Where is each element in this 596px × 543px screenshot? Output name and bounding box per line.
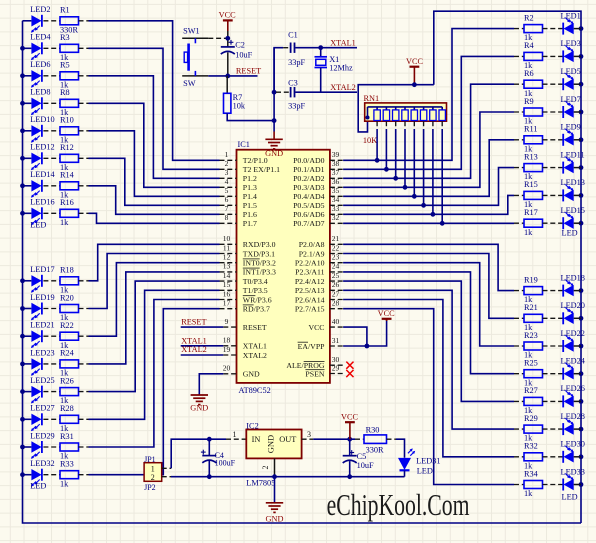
svg-text:LED10: LED10 xyxy=(30,115,54,124)
svg-text:T2 EX/P1.1: T2 EX/P1.1 xyxy=(243,165,280,174)
wire capacitor common xyxy=(274,48,283,121)
svg-text:R30: R30 xyxy=(366,426,380,435)
svg-text:29: 29 xyxy=(332,363,340,372)
wire R10 to IC1 pin 5 xyxy=(79,130,89,132)
wire LED13 anode xyxy=(574,194,581,196)
LED LED32 xyxy=(31,469,41,480)
capacitor C1 xyxy=(283,47,290,49)
svg-text:18: 18 xyxy=(223,336,231,345)
svg-text:32: 32 xyxy=(332,213,340,222)
svg-text:33pF: 33pF xyxy=(288,58,305,67)
svg-text:RESET: RESET xyxy=(243,323,267,332)
svg-text:LED31: LED31 xyxy=(416,456,440,465)
wire LED21 anode xyxy=(23,335,32,337)
pin 24 P2.3/A11 xyxy=(330,271,343,273)
resistor R25 xyxy=(514,373,524,375)
LED LED2 xyxy=(31,15,41,26)
wire IC1 P2.1 to R21 xyxy=(343,254,514,319)
svg-text:3: 3 xyxy=(307,430,311,439)
pin 33 P0.6/AD6 xyxy=(330,213,343,215)
wire LED25 cathode to R26 xyxy=(43,391,60,393)
pin 21 P2.0/A8 xyxy=(330,243,343,245)
junction xyxy=(365,344,370,349)
svg-text:2: 2 xyxy=(261,466,270,470)
svg-text:P0.1/AD1: P0.1/AD1 xyxy=(293,165,325,174)
svg-text:9: 9 xyxy=(225,317,229,326)
svg-text:LED20: LED20 xyxy=(561,301,585,310)
wire RN1 pin 8 to P0.6 xyxy=(432,121,434,129)
LED LED31 xyxy=(398,458,411,470)
svg-text:3: 3 xyxy=(225,168,229,177)
svg-text:24: 24 xyxy=(332,262,340,271)
svg-text:R24: R24 xyxy=(60,349,75,358)
junction xyxy=(579,482,584,487)
wire LED23 anode xyxy=(23,363,32,365)
junction xyxy=(393,176,398,181)
svg-text:LED28: LED28 xyxy=(561,412,585,421)
capacitor C5 xyxy=(349,439,351,456)
wire IC1 P0.3 to R9 xyxy=(343,112,514,187)
pin 10 RXD/P3.0 xyxy=(220,243,237,245)
svg-text:LED2: LED2 xyxy=(30,5,50,14)
svg-text:RESET: RESET xyxy=(181,317,206,326)
wire RN1 pin 5 to P0.3 xyxy=(404,121,406,129)
power VCC output xyxy=(345,421,355,423)
wire LED5 anode xyxy=(574,83,581,85)
svg-text:1: 1 xyxy=(225,150,229,159)
pin 38 P0.1/AD1 xyxy=(330,168,343,170)
svg-text:4: 4 xyxy=(225,177,229,186)
svg-text:R2: R2 xyxy=(524,13,534,22)
svg-text:38: 38 xyxy=(332,159,340,168)
svg-text:12: 12 xyxy=(223,253,231,262)
svg-text:14: 14 xyxy=(223,271,231,280)
wire LED15 anode xyxy=(574,222,581,224)
wire pin 31 EA to VCC xyxy=(343,319,387,346)
resistor R3 xyxy=(60,44,79,52)
wire pin 40 VCC to EA xyxy=(343,327,367,346)
svg-text:P0.0/AD0: P0.0/AD0 xyxy=(293,156,325,165)
svg-text:RD/P3.7: RD/P3.7 xyxy=(243,305,270,314)
wire IC1 P2.3 to R25 xyxy=(343,272,514,374)
junction xyxy=(579,54,584,59)
svg-text:INT1/P3.3: INT1/P3.3 xyxy=(243,268,276,277)
svg-text:LED24: LED24 xyxy=(561,357,586,366)
svg-text:P1.6: P1.6 xyxy=(243,210,257,219)
svg-text:17: 17 xyxy=(223,299,231,308)
wire IC1 P0.2 to R6 xyxy=(343,84,514,178)
svg-text:LED15: LED15 xyxy=(561,206,585,215)
wire LED18 anode xyxy=(574,290,581,292)
svg-text:LED: LED xyxy=(417,466,433,475)
pin 30 ALE/PROG xyxy=(330,364,343,366)
svg-text:R11: R11 xyxy=(524,125,538,134)
svg-text:AT89C52: AT89C52 xyxy=(239,386,271,395)
svg-text:23: 23 xyxy=(332,253,340,262)
svg-text:XTAL2: XTAL2 xyxy=(181,345,207,354)
resistor R1 xyxy=(60,17,79,25)
LED LED8 xyxy=(31,98,41,109)
svg-text:LED23: LED23 xyxy=(30,348,54,357)
junction xyxy=(579,82,584,87)
no-connect X xyxy=(346,362,353,369)
svg-text:LED9: LED9 xyxy=(561,123,581,132)
svg-text:LED29: LED29 xyxy=(30,431,54,440)
svg-text:R10: R10 xyxy=(60,116,74,125)
svg-text:XTAL1: XTAL1 xyxy=(181,336,207,345)
wire R1 to IC1 pin 1 xyxy=(79,20,89,22)
wire LED14 anode xyxy=(23,185,32,187)
wire LED9 anode xyxy=(574,139,581,141)
svg-text:33: 33 xyxy=(332,204,340,213)
svg-text:LED13: LED13 xyxy=(561,178,585,187)
capacitor C4 xyxy=(207,437,212,442)
resistor R22 xyxy=(60,332,79,340)
svg-text:12Mhz: 12Mhz xyxy=(329,63,353,72)
svg-text:C1: C1 xyxy=(288,31,298,40)
svg-text:LED5: LED5 xyxy=(561,67,581,76)
svg-text:P1.2: P1.2 xyxy=(243,174,257,183)
svg-text:LED19: LED19 xyxy=(30,293,54,302)
junction xyxy=(20,73,25,78)
svg-text:LED: LED xyxy=(562,493,578,502)
svg-text:R4: R4 xyxy=(524,41,535,50)
junction xyxy=(579,26,584,31)
junction xyxy=(20,211,25,216)
wire IC1 P0.1 to R4 xyxy=(343,56,514,169)
svg-text:SW1: SW1 xyxy=(183,27,200,36)
pin 3 P1.2 xyxy=(220,177,237,179)
capacitor C2 xyxy=(227,31,229,47)
wire LED26 anode xyxy=(574,400,581,402)
junction xyxy=(579,427,584,432)
LED LED1 xyxy=(564,23,574,34)
svg-text:LED8: LED8 xyxy=(30,88,50,97)
svg-text:R19: R19 xyxy=(524,275,538,284)
wire R32 to LED30 xyxy=(543,456,564,458)
wire right anode bus xyxy=(434,11,581,523)
wire LED3 anode xyxy=(574,55,581,57)
svg-text:11: 11 xyxy=(223,243,230,252)
svg-text:R8: R8 xyxy=(60,88,70,97)
svg-text:R27: R27 xyxy=(524,386,538,395)
resistor R20 xyxy=(60,305,79,313)
wire LED1 anode xyxy=(574,28,581,30)
junction xyxy=(20,128,25,133)
svg-text:GND: GND xyxy=(190,404,208,413)
pin 5 P1.4 xyxy=(220,195,237,197)
wire LED19 cathode to R20 xyxy=(43,308,60,310)
RN1 element 5 xyxy=(404,107,406,110)
pin 31 EA/VPP xyxy=(330,345,343,347)
resistor R30 xyxy=(355,438,364,440)
svg-text:P0.6/AD6: P0.6/AD6 xyxy=(293,210,325,219)
svg-text:XTAL1: XTAL1 xyxy=(330,38,356,47)
wire LED27 anode xyxy=(23,418,32,420)
svg-text:36: 36 xyxy=(332,177,340,186)
wire R6 to LED5 xyxy=(543,83,564,85)
pin 17 RD/P3.7 xyxy=(220,308,237,310)
svg-text:LED16: LED16 xyxy=(30,198,54,207)
no-connect X xyxy=(346,370,353,377)
svg-text:SW: SW xyxy=(183,79,196,88)
wire R4 to LED3 xyxy=(543,55,564,57)
wire RESET to pin 9 xyxy=(181,326,224,328)
svg-text:P2.1/A9: P2.1/A9 xyxy=(299,249,325,258)
junction xyxy=(579,165,584,170)
svg-text:LED: LED xyxy=(30,221,46,230)
wire LED19 anode xyxy=(23,308,32,310)
svg-text:R18: R18 xyxy=(60,266,74,275)
wire RN1 pin 3 to P0.1 xyxy=(385,121,387,129)
svg-text:100uF: 100uF xyxy=(215,459,236,468)
wire R13 to LED11 xyxy=(543,167,564,169)
svg-text:R25: R25 xyxy=(524,359,538,368)
wire IC1 P2.6 to R32 xyxy=(343,300,514,457)
wire R2 to LED1 xyxy=(543,28,564,30)
pin 18 XTAL1 xyxy=(223,345,236,347)
svg-text:R1: R1 xyxy=(60,6,70,15)
svg-text:P2.6/A14: P2.6/A14 xyxy=(295,295,325,304)
wire IC1 P2.4 to R27 xyxy=(343,281,514,401)
wire R17 to LED15 xyxy=(543,222,564,224)
pin 4 P1.3 xyxy=(220,186,237,188)
svg-text:1k: 1k xyxy=(524,489,533,498)
junction xyxy=(412,82,417,87)
svg-text:T2/P1.0: T2/P1.0 xyxy=(243,156,268,165)
wire LED2 anode xyxy=(23,20,32,22)
wire R24 to IC1 pin 13 xyxy=(79,363,89,365)
wire R18 to IC1 pin 10 xyxy=(79,280,89,282)
junction xyxy=(412,194,417,199)
junction xyxy=(384,167,389,172)
svg-text:IN: IN xyxy=(252,435,261,444)
svg-text:P1.5: P1.5 xyxy=(243,201,257,210)
svg-text:330R: 330R xyxy=(366,445,384,454)
svg-text:6: 6 xyxy=(225,195,229,204)
wire LED16 cathode to R16 xyxy=(43,212,60,214)
svg-text:P2.2/A10: P2.2/A10 xyxy=(295,259,325,268)
wire C3 common xyxy=(273,48,275,92)
svg-text:LED3: LED3 xyxy=(561,39,581,48)
svg-text:R6: R6 xyxy=(524,69,534,78)
wire R21 to LED20 xyxy=(543,317,564,319)
wire XTAL1 net xyxy=(295,47,357,49)
wire R9 to LED7 xyxy=(543,111,564,113)
junction xyxy=(579,454,584,459)
wire IC1 P0.4 to R11 xyxy=(343,140,514,197)
svg-text:VCC: VCC xyxy=(341,412,359,421)
svg-text:PSEN: PSEN xyxy=(305,369,324,378)
wire R16 to IC1 pin 8 xyxy=(79,212,89,214)
svg-text:P1.4: P1.4 xyxy=(243,192,257,201)
wire LED14 cathode to R14 xyxy=(43,185,60,187)
svg-text:LED4: LED4 xyxy=(30,33,51,42)
junction xyxy=(20,306,25,311)
LED LED28 xyxy=(564,423,574,434)
wire LED6 cathode to R5 xyxy=(43,75,60,77)
junction xyxy=(579,221,584,226)
resistor R4 xyxy=(514,55,524,57)
RN1 element 2 xyxy=(376,107,378,110)
svg-text:P0.4/AD4: P0.4/AD4 xyxy=(293,192,325,201)
wire C2 to reset node xyxy=(227,52,229,76)
wire R11 to LED9 xyxy=(543,139,564,141)
pin 23 P2.2/A10 xyxy=(330,262,343,264)
svg-text:OUT: OUT xyxy=(279,435,296,444)
wire LED2 cathode to R1 xyxy=(43,20,60,22)
RN1 element 6 xyxy=(413,107,415,110)
pin 7 P1.6 xyxy=(220,213,237,215)
svg-text:22: 22 xyxy=(332,243,340,252)
svg-text:LED7: LED7 xyxy=(561,95,581,104)
op-amp U1 IC1 AT89C52 body xyxy=(237,150,330,383)
junction xyxy=(579,110,584,115)
svg-text:P0.3/AD3: P0.3/AD3 xyxy=(293,183,325,192)
pin 20 GND xyxy=(223,373,236,375)
svg-text:21: 21 xyxy=(332,234,340,243)
svg-text:LED1: LED1 xyxy=(561,11,581,20)
wire IC1 P2.7 to R34 xyxy=(343,309,514,485)
junction xyxy=(20,472,25,477)
junction xyxy=(579,288,584,293)
svg-text:VCC: VCC xyxy=(406,57,424,66)
svg-text:20: 20 xyxy=(223,364,231,373)
resistor R12 xyxy=(60,154,79,162)
wire R20 to IC1 pin 11 xyxy=(79,308,89,310)
resistor R5 xyxy=(60,72,79,80)
wire RN1 pin 7 to P0.5 xyxy=(423,121,425,129)
wire IC1 P2.2 to R23 xyxy=(343,263,514,346)
LED LED15 xyxy=(564,218,574,229)
junction xyxy=(579,316,584,321)
pin 2 T2 EX/P1.1 xyxy=(220,168,237,170)
junction xyxy=(347,437,352,442)
wire LED12 cathode to R12 xyxy=(43,157,60,159)
svg-text:XTAL2: XTAL2 xyxy=(243,351,267,360)
wire LED33 anode xyxy=(574,484,581,486)
svg-text:P2.0/A8: P2.0/A8 xyxy=(299,240,325,249)
svg-text:R13: R13 xyxy=(524,152,538,161)
LED LED14 xyxy=(31,180,41,191)
svg-text:1: 1 xyxy=(233,430,237,439)
wire RN1 pin 9 to P0.7 xyxy=(441,121,443,129)
wire LED25 anode xyxy=(23,391,32,393)
svg-text:TXD/P3.1: TXD/P3.1 xyxy=(243,249,275,258)
wire R28 to IC1 pin 15 xyxy=(79,418,89,420)
svg-text:R9: R9 xyxy=(524,97,534,106)
svg-text:34: 34 xyxy=(332,195,340,204)
wire R34 to LED33 xyxy=(543,484,564,486)
svg-text:P2.7/A15: P2.7/A15 xyxy=(295,305,325,314)
wire LED17 anode xyxy=(23,280,32,282)
resistor R6 xyxy=(514,83,524,85)
svg-text:LED12: LED12 xyxy=(30,143,54,152)
resistor R9 xyxy=(514,111,524,113)
svg-text:R14: R14 xyxy=(60,171,75,180)
pin 1 T2/P1.0 xyxy=(220,159,237,161)
wire XTAL1 to pin 18 xyxy=(181,345,224,347)
svg-text:R32: R32 xyxy=(524,442,538,451)
svg-text:P2.4/A12: P2.4/A12 xyxy=(295,277,325,286)
svg-text:R33: R33 xyxy=(60,460,74,469)
wire R8 to IC1 pin 4 xyxy=(79,102,89,104)
junction xyxy=(403,185,408,190)
pin 34 P0.5/AD5 xyxy=(330,204,343,206)
pin 12 INT0/P3.2 xyxy=(220,262,237,264)
svg-text:C3: C3 xyxy=(288,79,298,88)
svg-text:R22: R22 xyxy=(60,321,74,330)
svg-text:P1.7: P1.7 xyxy=(243,219,257,228)
resistor R10 xyxy=(60,127,79,135)
svg-text:WR/P3.6: WR/P3.6 xyxy=(243,295,272,304)
pin 22 P2.1/A9 xyxy=(330,253,343,255)
wire IC1 P0.6 to R15 xyxy=(343,195,514,214)
svg-text:P0.5/AD5: P0.5/AD5 xyxy=(293,201,325,210)
svg-text:28: 28 xyxy=(332,299,340,308)
svg-text:8: 8 xyxy=(225,213,229,222)
svg-text:GND: GND xyxy=(265,149,283,158)
svg-text:LED33: LED33 xyxy=(561,467,585,476)
svg-text:37: 37 xyxy=(332,168,340,177)
junction xyxy=(20,389,25,394)
wire IC1 P2.0 to R19 xyxy=(343,244,514,290)
resistor R21 xyxy=(514,317,524,319)
svg-text:LED25: LED25 xyxy=(30,376,54,385)
junction xyxy=(440,221,445,226)
pin 16 WR/P3.6 xyxy=(220,299,237,301)
svg-text:LED: LED xyxy=(562,229,578,238)
resistor R26 xyxy=(60,388,79,396)
LED LED7 xyxy=(564,106,574,117)
junction xyxy=(579,193,584,198)
junction xyxy=(20,46,25,51)
pin 39 P0.0/AD0 xyxy=(330,159,343,161)
resistor R34 xyxy=(514,484,524,486)
LED LED6 xyxy=(31,70,41,81)
power VCC RN1 xyxy=(410,66,420,68)
LED LED25 xyxy=(31,386,41,397)
junction xyxy=(579,344,584,349)
pin 27 P2.6/A14 xyxy=(330,299,343,301)
wire RN1 pin 2 to P0.0 xyxy=(376,121,378,129)
resistor R18 xyxy=(60,277,79,285)
wire LED23 cathode to R24 xyxy=(43,363,60,365)
resistor R11 xyxy=(514,139,524,141)
svg-text:R16: R16 xyxy=(60,198,74,207)
wire LED20 anode xyxy=(574,317,581,319)
wire R26 to IC1 pin 14 xyxy=(79,391,89,393)
svg-text:VCC: VCC xyxy=(378,309,396,318)
junction xyxy=(579,399,584,404)
svg-text:R26: R26 xyxy=(60,376,74,385)
wire XTAL2 to pin 19 xyxy=(181,354,224,356)
svg-text:R34: R34 xyxy=(524,469,539,478)
svg-text:10k: 10k xyxy=(233,102,246,111)
svg-text:P1.3: P1.3 xyxy=(243,183,257,192)
wire R30 to LED31 xyxy=(387,438,397,440)
svg-text:P2.5/A13: P2.5/A13 xyxy=(295,286,325,295)
svg-text:31: 31 xyxy=(332,336,340,345)
wire RN1 pin 4 to P0.2 xyxy=(395,121,397,129)
resistor R24 xyxy=(60,360,79,368)
junction xyxy=(20,156,25,161)
resistor R33 xyxy=(60,471,79,479)
svg-text:10uF: 10uF xyxy=(235,51,252,60)
svg-text:R20: R20 xyxy=(60,293,74,302)
resistor R19 xyxy=(514,290,524,292)
LED LED19 xyxy=(31,303,41,314)
